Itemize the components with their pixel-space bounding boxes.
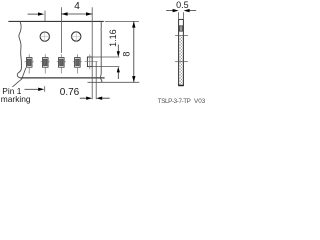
pocket 3 outline	[59, 58, 65, 68]
tape bottom edge (front view)	[20, 77, 104, 79]
dimension 8: bottom extension line	[88, 81, 140, 83]
dimension 0.5: extension lines	[179, 12, 184, 19]
dimension 0.76: right extension line	[95, 62, 97, 100]
dimension 1.16: extension lines	[92, 57, 119, 67]
side view sprocket hole (section)	[179, 26, 182, 31]
bottom outside arrow	[25, 88, 39, 90]
side view strip outline	[179, 19, 184, 85]
dimension 8: top extension line	[105, 20, 139, 22]
pocket 2 centerline ticks	[41, 54, 50, 73]
svg-text:marking: marking	[1, 94, 31, 104]
Pin 1 leader line	[12, 68, 26, 87]
left outside arrow (sprocket centerline)	[28, 13, 38, 15]
svg-text:1.16: 1.16	[108, 29, 118, 47]
dimension 8: dimension line	[133, 21, 135, 82]
pocket 3 component fill	[60, 59, 64, 66]
svg-text:TSLP-3-7-TP: TSLP-3-7-TP	[158, 98, 191, 105]
pocket 4 component fill	[76, 59, 80, 66]
dimension 4: extension lines	[61, 7, 92, 99]
pocket 2 outline	[42, 58, 48, 68]
sprocket centerline extension	[44, 11, 46, 22]
svg-text:8: 8	[122, 52, 132, 57]
sprocket hole 1 crosshair	[39, 31, 51, 43]
sprocket hole 1	[40, 32, 49, 41]
tape top edge (front view)	[8, 20, 103, 22]
pocket 3 centerline ticks	[57, 54, 66, 73]
bottom arrow extension line	[44, 86, 46, 92]
sprocket hole 2 crosshair	[70, 31, 82, 43]
dimension 4: dimension line	[61, 13, 92, 15]
dimension 1.16: dimension line segments	[117, 45, 119, 80]
dimension 4: arrowheads	[61, 12, 67, 15]
svg-text:V03: V03	[194, 98, 206, 105]
pocket 4 centerline ticks	[73, 54, 82, 73]
right cut break edge	[100, 21, 101, 82]
pocket 2 component fill	[43, 59, 47, 66]
pocket 5 (empty, dimensioned) outline	[87, 57, 92, 67]
svg-text:0.76: 0.76	[60, 87, 80, 98]
dimension 1.16: arrowheads	[117, 51, 120, 57]
dimension 8: arrowheads	[132, 21, 135, 27]
pocket 1 centerline ticks	[25, 54, 34, 73]
side view strip bottom cap	[178, 84, 183, 86]
dimension 0.5: dimension line + outside arrows	[166, 10, 196, 12]
dimension 0.76: dimension line + outside arrows	[80, 97, 110, 99]
side view pocket centerline	[175, 61, 188, 63]
pocket 4 outline	[75, 58, 81, 68]
side view hatch fill	[179, 36, 183, 85]
sprocket hole 2	[72, 32, 81, 41]
pocket 1 outline	[26, 58, 32, 68]
side view sprocket centerline	[175, 34, 188, 36]
pocket 1 component fill	[27, 59, 31, 66]
svg-text:4: 4	[74, 1, 80, 12]
torn left break edge	[17, 21, 21, 78]
pocket 5 centerlines	[85, 54, 98, 69]
svg-text:0.5: 0.5	[176, 0, 189, 10]
